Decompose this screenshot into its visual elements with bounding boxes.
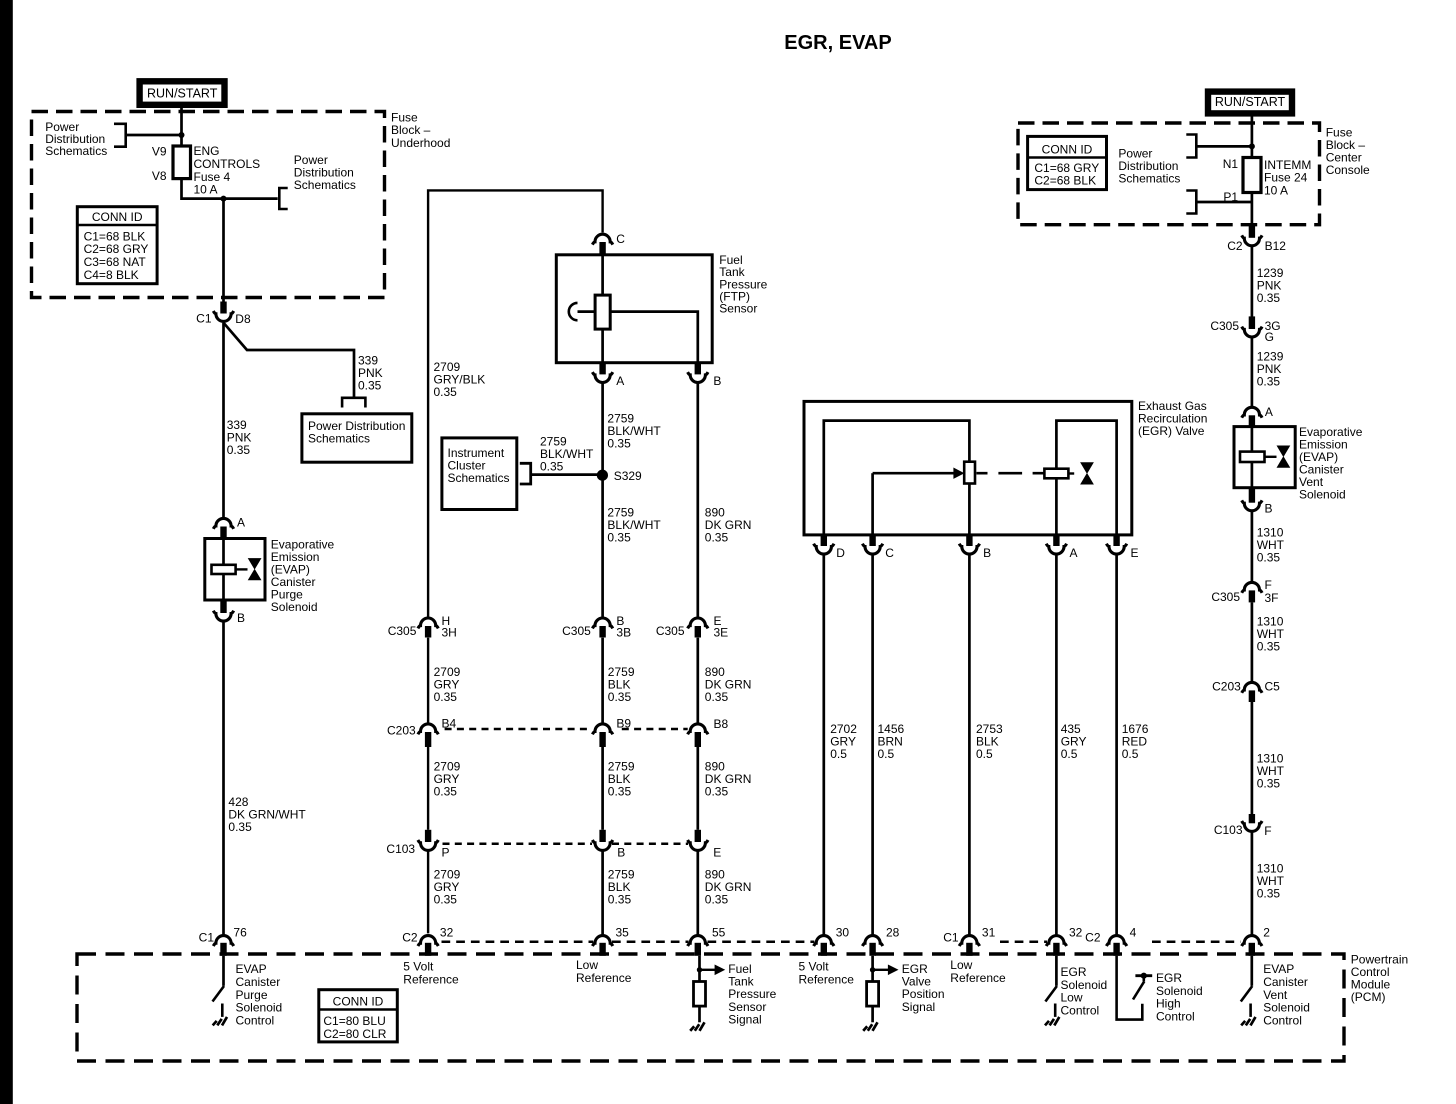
- svg-text:Schematics: Schematics: [308, 432, 370, 446]
- svg-text:CONN ID: CONN ID: [92, 210, 143, 224]
- svg-text:0.35: 0.35: [607, 530, 631, 544]
- wire RUN/START (right) down to fuse 24: [1251, 117, 1254, 158]
- bracket at instrument cluster box: [520, 463, 531, 484]
- svg-text:0.5: 0.5: [976, 747, 993, 761]
- svg-text:C305: C305: [562, 624, 591, 638]
- svg-text:CONN ID: CONN ID: [1042, 142, 1093, 156]
- svg-text:0.35: 0.35: [358, 379, 382, 393]
- svg-text:C2=80 CLR: C2=80 CLR: [323, 1027, 386, 1041]
- svg-text:Control: Control: [1156, 1009, 1195, 1023]
- svg-text:0.35: 0.35: [1257, 887, 1281, 901]
- solenoid coil (vent): [1240, 452, 1265, 462]
- wire bracket to RUN/START feed: [1196, 145, 1252, 148]
- connector C203 pin B9: [592, 724, 612, 734]
- svg-text:E: E: [1131, 546, 1139, 560]
- wire EGR B to PCM pin 31: [968, 555, 971, 935]
- wire branch D8 to power distribution: [224, 323, 355, 397]
- wire EGR C to PCM pin 28: [871, 555, 874, 935]
- wire to power distribution bracket (left): [127, 134, 182, 137]
- PCM pin 28 connector: [862, 936, 882, 946]
- svg-text:C305: C305: [388, 624, 417, 638]
- svg-text:0.5: 0.5: [1061, 747, 1078, 761]
- svg-text:0.35: 0.35: [1257, 374, 1281, 388]
- svg-text:0.5: 0.5: [1122, 747, 1139, 761]
- svg-text:RUN/START: RUN/START: [147, 87, 218, 101]
- instrument cluster schematics box: [442, 438, 517, 510]
- svg-text:ENG: ENG: [194, 144, 220, 158]
- connector C1 D8: [220, 302, 226, 314]
- svg-text:V9: V9: [152, 145, 167, 159]
- arrow EGR valve position signal: [874, 969, 888, 971]
- wire FTP B to PCM pin 55: [696, 383, 699, 934]
- PCM pin 32 (C1) connector: [1046, 936, 1066, 946]
- node junction (center console feed): [1249, 143, 1255, 149]
- connector C305 pin 3G/G: [1249, 316, 1255, 329]
- EGR wiper arrow: [953, 468, 964, 479]
- splice S329: [597, 470, 608, 481]
- svg-text:C203: C203: [387, 724, 416, 738]
- EVAP canister purge solenoid box: [205, 539, 265, 601]
- svg-text:0.35: 0.35: [705, 893, 729, 907]
- svg-text:Solenoid: Solenoid: [1299, 488, 1346, 502]
- svg-text:Reference: Reference: [950, 971, 1006, 985]
- svg-text:10 A: 10 A: [194, 183, 218, 197]
- svg-text:C305: C305: [1210, 319, 1239, 333]
- svg-text:C2: C2: [402, 931, 418, 945]
- svg-text:0.35: 0.35: [608, 785, 632, 799]
- solenoid coil (purge): [212, 565, 236, 574]
- EGR solenoid loop: [1056, 421, 1116, 535]
- bracket into Power Distribution Schematics box: [342, 398, 365, 408]
- EGR solenoid coil: [1044, 469, 1068, 479]
- svg-text:Console: Console: [1326, 163, 1370, 177]
- wire instrument cluster to splice S329: [531, 473, 599, 476]
- wire resistor to ground (EGR): [871, 1006, 874, 1022]
- svg-text:D8: D8: [235, 312, 251, 326]
- svg-text:0.35: 0.35: [705, 785, 729, 799]
- svg-text:B9: B9: [616, 717, 631, 731]
- EGR potentiometer element: [964, 462, 975, 484]
- svg-text:C1: C1: [943, 931, 959, 945]
- wire fuse 24 output: [1251, 193, 1254, 228]
- bracket to Power Distribution Schematics (right): [279, 188, 287, 209]
- svg-text:28: 28: [886, 926, 900, 940]
- PCM pin 35 connector: [592, 936, 612, 946]
- svg-text:4: 4: [1130, 926, 1137, 940]
- wire pin 55 to pullup node: [698, 956, 701, 982]
- svg-text:F: F: [1264, 824, 1271, 838]
- connector pin C (FTP): [592, 234, 612, 244]
- PCM pin 32 (C2) connector: [418, 936, 438, 946]
- PCM pin 55 connector: [688, 936, 708, 946]
- svg-text:Solenoid: Solenoid: [236, 1001, 283, 1015]
- connector C305 pin B/3B: [592, 618, 612, 628]
- svg-text:Solenoid: Solenoid: [271, 600, 318, 614]
- svg-text:Reference: Reference: [799, 972, 855, 986]
- svg-text:(PCM): (PCM): [1351, 990, 1386, 1004]
- svg-text:2: 2: [1263, 926, 1270, 940]
- svg-text:0.35: 0.35: [434, 893, 458, 907]
- svg-text:C1: C1: [199, 931, 215, 945]
- PCM pin 32 driver switch: [1055, 956, 1058, 986]
- svg-text:P: P: [442, 846, 450, 860]
- PCM pin 31 connector: [959, 936, 979, 946]
- valve symbol (vent): [1277, 446, 1289, 467]
- box Power Distribution Schematics: [302, 414, 412, 462]
- dashed connector line C203 row: [445, 728, 688, 731]
- svg-text:Purge: Purge: [236, 988, 268, 1002]
- svg-text:32: 32: [440, 926, 454, 940]
- svg-text:B: B: [237, 611, 245, 625]
- EGR valve symbol: [1068, 472, 1074, 474]
- svg-text:0.35: 0.35: [434, 690, 458, 704]
- wire EGR E to PCM pin 4: [1115, 555, 1118, 935]
- svg-text:Control: Control: [236, 1014, 275, 1028]
- EVAP canister vent solenoid box: [1234, 427, 1295, 488]
- FTP pressure port symbol: [569, 303, 578, 320]
- dashed connector line C103 row: [443, 843, 689, 846]
- svg-text:0.35: 0.35: [608, 690, 632, 704]
- wire FTP A to PCM pin 35: [601, 383, 604, 934]
- coil to valve link (purge): [236, 568, 248, 570]
- svg-text:B: B: [617, 846, 625, 860]
- svg-text:Canister: Canister: [1263, 975, 1308, 989]
- svg-text:0.35: 0.35: [1257, 639, 1281, 653]
- left page edge black bar: [0, 0, 13, 1104]
- fuel tank pressure sensor box: [556, 255, 712, 363]
- svg-text:A: A: [1265, 405, 1273, 419]
- EGR mechanical link (dashed): [976, 472, 1044, 475]
- node junction below fuse: [221, 196, 227, 202]
- svg-text:B: B: [983, 546, 991, 560]
- svg-text:(EGR) Valve: (EGR) Valve: [1138, 424, 1205, 438]
- svg-text:C103: C103: [1214, 823, 1243, 837]
- svg-text:0.5: 0.5: [830, 747, 847, 761]
- wire 3F to C203 C5: [1251, 602, 1254, 681]
- svg-text:Underhood: Underhood: [391, 136, 450, 150]
- EGR valve box: [804, 401, 1132, 535]
- ground (pin 76 driver): [213, 1017, 227, 1026]
- EGR potentiometer loop: [824, 421, 970, 535]
- svg-text:Schematics: Schematics: [448, 471, 510, 485]
- power source box RUN/START (right): [1208, 92, 1292, 114]
- dashed box Fuse Block - Underhood: [32, 112, 385, 298]
- wire EGR D to PCM pin 30: [822, 555, 825, 935]
- svg-text:32: 32: [1069, 926, 1083, 940]
- svg-text:C5: C5: [1265, 680, 1281, 694]
- ground (EGR position): [863, 1022, 877, 1031]
- PCM pin 2 driver switch: [1250, 956, 1253, 986]
- svg-text:C1: C1: [196, 312, 212, 326]
- svg-text:0.35: 0.35: [608, 893, 632, 907]
- svg-text:3B: 3B: [616, 626, 631, 640]
- svg-text:V8: V8: [152, 169, 167, 183]
- bracket to Power Distribution Schematics (left): [114, 124, 126, 147]
- wire resistor to ground (FTP): [698, 1006, 701, 1022]
- PCM pin 30 connector: [814, 936, 834, 946]
- svg-text:N1: N1: [1223, 157, 1239, 171]
- connector C2 B12: [1249, 226, 1255, 238]
- svg-text:Schematics: Schematics: [45, 144, 107, 158]
- wire pin 28 to pullup node: [871, 956, 874, 982]
- svg-text:C2=68 BLK: C2=68 BLK: [1034, 174, 1096, 188]
- FTP internal signal wire: [610, 312, 698, 363]
- coil to valve link (vent): [1265, 456, 1277, 458]
- wire C5 to C103 F: [1251, 702, 1254, 814]
- wire C103 F to PCM pin 2: [1251, 832, 1254, 935]
- connector C103 pin B: [599, 830, 605, 842]
- svg-text:CONTROLS: CONTROLS: [194, 157, 261, 171]
- svg-text:E: E: [713, 846, 721, 860]
- connector pin A (FTP): [599, 363, 605, 375]
- svg-text:Canister: Canister: [236, 975, 281, 989]
- connector pin B (FTP): [695, 363, 701, 375]
- PCM pin 76 driver switch: [222, 956, 225, 986]
- svg-text:3F: 3F: [1265, 591, 1279, 605]
- connector pin D (EGR): [821, 535, 827, 546]
- svg-text:Control: Control: [1061, 1003, 1100, 1017]
- wire through purge solenoid: [222, 539, 225, 565]
- svg-text:Reference: Reference: [576, 971, 632, 985]
- svg-text:C4=8 BLK: C4=8 BLK: [84, 268, 139, 282]
- dashed pin header line (PCM row): [442, 941, 1241, 944]
- svg-text:G: G: [1265, 330, 1274, 344]
- EGR wiper wire: [871, 473, 874, 535]
- wire B12 to C305 3G: [1251, 246, 1254, 317]
- svg-text:Signal: Signal: [902, 1000, 935, 1014]
- fuse F24 INTEMM: [1243, 158, 1261, 193]
- connector C305 pin F/3F: [1242, 582, 1262, 592]
- svg-text:Schematics: Schematics: [294, 178, 356, 192]
- connector C103 pin P: [425, 830, 431, 842]
- connector pin E (EGR): [1113, 535, 1119, 546]
- svg-text:10 A: 10 A: [1264, 183, 1288, 197]
- svg-text:Vent: Vent: [1263, 988, 1288, 1002]
- svg-text:0.35: 0.35: [1257, 776, 1281, 790]
- svg-text:0.35: 0.35: [540, 459, 564, 473]
- ground (pin 2 driver): [1241, 1017, 1255, 1026]
- wire 5V reference feed (top run): [428, 190, 602, 933]
- connector pin A (EVAP purge): [213, 518, 233, 528]
- power source box RUN/START (left): [140, 81, 225, 105]
- svg-text:3H: 3H: [442, 626, 457, 640]
- node FTP signal junction: [697, 967, 702, 972]
- svg-text:0.35: 0.35: [705, 530, 729, 544]
- svg-text:0.35: 0.35: [228, 820, 252, 834]
- svg-text:CONN ID: CONN ID: [333, 995, 384, 1009]
- connector C203 pin B4: [418, 724, 438, 734]
- svg-text:55: 55: [712, 926, 726, 940]
- svg-text:A: A: [237, 516, 245, 530]
- svg-text:S329: S329: [614, 469, 642, 483]
- svg-text:C103: C103: [386, 842, 415, 856]
- svg-text:0.35: 0.35: [434, 385, 458, 399]
- connector C203 pin B8: [688, 724, 708, 734]
- svg-text:0.5: 0.5: [878, 747, 895, 761]
- node EGR position junction: [870, 967, 875, 972]
- PCM pin 4 high-side switch: [1117, 956, 1143, 1020]
- svg-text:EVAP: EVAP: [1263, 962, 1294, 976]
- svg-text:0.35: 0.35: [1257, 550, 1281, 564]
- svg-text:F: F: [1265, 578, 1272, 592]
- svg-text:0.35: 0.35: [434, 785, 458, 799]
- connector pin B (EVAP vent): [1249, 488, 1255, 503]
- wire vent B to C305 F: [1251, 511, 1254, 582]
- svg-text:EGR, EVAP: EGR, EVAP: [784, 32, 891, 54]
- PCM pin 76 connector: [213, 936, 233, 946]
- svg-text:C: C: [616, 232, 625, 246]
- CONN ID table (center console): [1028, 136, 1107, 189]
- wire through vent solenoid: [1251, 427, 1254, 452]
- svg-text:B: B: [713, 374, 721, 388]
- connector C103 pin E: [695, 830, 701, 842]
- connector C305 pin H/3H: [418, 618, 438, 628]
- svg-text:0.35: 0.35: [607, 436, 631, 450]
- wire 3G to EVAP vent A: [1251, 337, 1254, 407]
- svg-text:A: A: [1070, 546, 1078, 560]
- svg-text:A: A: [616, 374, 624, 388]
- svg-text:B8: B8: [714, 717, 729, 731]
- connector pin A (EVAP vent): [1242, 407, 1262, 417]
- svg-text:76: 76: [233, 926, 247, 940]
- svg-text:C305: C305: [656, 624, 685, 638]
- bracket lower (center console): [1186, 191, 1196, 214]
- PCM pin 2 connector: [1242, 936, 1262, 946]
- ground (FTP signal): [690, 1022, 704, 1031]
- bracket upper (center console): [1186, 135, 1196, 158]
- node junction at V9 feed: [179, 132, 185, 138]
- svg-text:C305: C305: [1211, 590, 1240, 604]
- wire fuse output: [182, 179, 278, 199]
- connector pin B (EGR): [966, 535, 972, 546]
- wire junction to connector C1 D8: [222, 199, 225, 303]
- ground (pin 32 driver): [1045, 1017, 1059, 1026]
- connector pin A (EGR): [1053, 535, 1059, 546]
- FTP transducer element: [595, 295, 610, 329]
- dashed box Fuse Block - Center Console: [1018, 123, 1320, 225]
- wire D8 to EVAP purge solenoid pin A: [222, 323, 225, 518]
- wire EGR A to PCM pin 32: [1055, 555, 1058, 935]
- svg-text:0.35: 0.35: [227, 443, 251, 457]
- connector C305 pin E/3E: [688, 618, 708, 628]
- CONN ID table (underhood): [77, 207, 157, 284]
- svg-text:Sensor: Sensor: [719, 302, 757, 316]
- svg-text:35: 35: [616, 926, 630, 940]
- svg-text:RUN/START: RUN/START: [1215, 95, 1286, 109]
- valve symbol (purge): [249, 559, 261, 580]
- svg-text:31: 31: [982, 926, 996, 940]
- arrow FTP sensor signal: [701, 969, 715, 971]
- svg-text:Control: Control: [1263, 1014, 1302, 1028]
- svg-text:B12: B12: [1265, 239, 1287, 253]
- fuse F1 ENG CONTROLS Fuse 4: [173, 146, 191, 179]
- resistor (FTP signal): [694, 982, 706, 1007]
- svg-text:Fuse 4: Fuse 4: [194, 170, 231, 184]
- wire RUN/START to fuse: [180, 108, 183, 147]
- wire FTP internal vertical: [601, 255, 604, 295]
- wire EVAP purge B to PCM pin 76: [222, 622, 225, 935]
- PCM pin 4 connector: [1106, 936, 1126, 946]
- connector C203 pin C5: [1242, 682, 1262, 692]
- wire bracket lower to fuse output: [1196, 201, 1252, 204]
- svg-text:Schematics: Schematics: [1118, 172, 1180, 186]
- resistor (EGR position): [867, 982, 879, 1007]
- svg-text:30: 30: [836, 926, 850, 940]
- svg-text:C203: C203: [1212, 680, 1241, 694]
- svg-text:Reference: Reference: [403, 972, 459, 986]
- svg-text:0.35: 0.35: [705, 690, 729, 704]
- svg-text:Solenoid: Solenoid: [1263, 1001, 1310, 1015]
- PCM dashed box: [77, 954, 1344, 1061]
- connector C103 pin F: [1249, 814, 1255, 823]
- svg-text:B: B: [1265, 502, 1273, 516]
- CONN ID table (PCM): [319, 990, 398, 1042]
- connector pin C (EGR): [869, 535, 875, 546]
- svg-text:D: D: [836, 546, 845, 560]
- svg-text:EVAP: EVAP: [236, 962, 267, 976]
- svg-text:3E: 3E: [714, 626, 729, 640]
- svg-text:0.35: 0.35: [1257, 291, 1281, 305]
- svg-text:C2: C2: [1085, 931, 1101, 945]
- svg-text:C: C: [885, 546, 894, 560]
- svg-text:Signal: Signal: [728, 1012, 761, 1026]
- svg-text:C2: C2: [1227, 239, 1243, 253]
- connector pin B (EVAP purge): [220, 600, 226, 613]
